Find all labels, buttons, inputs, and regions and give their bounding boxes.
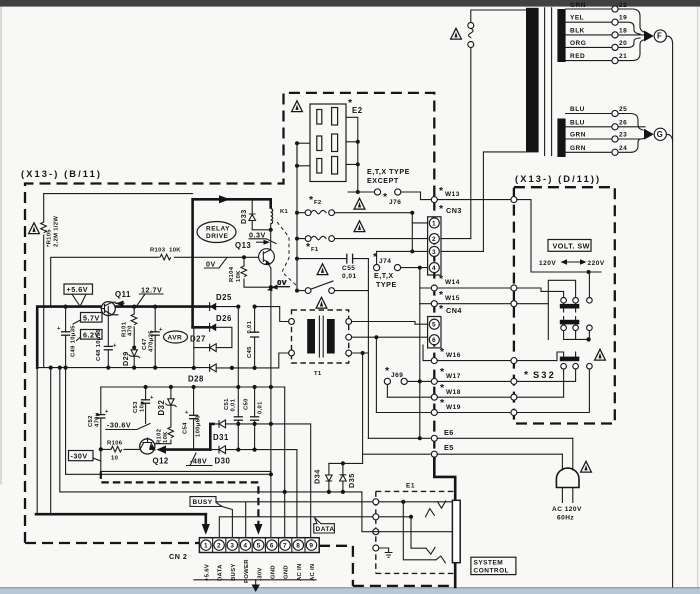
jack contacts upper [426,501,446,517]
svg-text:60Hz: 60Hz [557,515,574,522]
svg-text:100μ63: 100μ63 [196,415,202,437]
svg-text:+: + [105,409,109,415]
wire W15 into selector [517,303,548,305]
SYSTEM CONTROL label box [471,557,516,574]
node F [654,30,666,42]
solid thick boundary below E5 to bottom [434,455,455,587]
diode D30 [210,449,297,451]
svg-text:0,01: 0,01 [258,401,264,414]
AC plug body [556,468,579,487]
svg-text:470: 470 [128,325,134,336]
svg-text:26: 26 [619,119,627,126]
terminal circles lower [612,110,618,116]
svg-text:C54: C54 [183,422,189,434]
main vertical feed from E2 [295,211,299,215]
svg-text:W19: W19 [446,404,461,411]
switch S32 unit1 [560,304,580,309]
label -30.6V [106,424,150,430]
svg-text:23: 23 [619,132,627,139]
svg-text:EXCEPT: EXCEPT [367,176,399,185]
svg-text:12.7V: 12.7V [141,286,162,295]
DATA tag [314,518,335,533]
warning triangle at R105 [29,223,40,234]
sub box R103 line [51,257,258,306]
wire AC line from connector to primary [471,10,526,239]
warning triangle near C55 [317,264,328,275]
svg-text:SYSTEM: SYSTEM [474,560,504,567]
wire data line to E1 [219,517,411,537]
svg-text:C45: C45 [247,346,253,358]
GND rail from C49 column [66,368,271,475]
nodes D34/D35 bottom on gnd line [327,490,331,494]
plug prongs [562,488,572,503]
svg-text:F1: F1 [311,247,319,253]
svg-text:7: 7 [283,543,287,550]
capacitor C48 [107,307,109,368]
svg-text:E6: E6 [444,428,454,437]
bottom scan bar [0,587,700,594]
transformer secondary bar upper [557,9,565,62]
wire CN4 pin6 to W16 [423,345,431,361]
capacitor C54 [193,387,195,450]
feeder to ground line [60,368,362,492]
svg-text:F2: F2 [314,200,322,206]
wire W16 into unit3 [517,360,557,362]
svg-text:W18: W18 [446,389,461,396]
warning triangle above T1 [316,297,327,308]
wire busy tag to pin3 [222,507,232,538]
svg-text:+: + [113,343,117,349]
svg-text:ORG: ORG [570,40,586,47]
jumper J69 [387,381,431,397]
svg-text:Q11: Q11 [115,290,131,299]
wire pin3 row [377,250,428,252]
svg-text:5: 5 [432,322,436,329]
dashed boundary (X13-)(B/11) with E2 extension [25,93,434,543]
wire switch/C55 net down to E6 [367,291,369,439]
capacitor C49 [65,307,67,368]
svg-text:D29: D29 [121,351,130,366]
svg-text:9: 9 [309,543,313,550]
svg-text:24: 24 [619,145,627,152]
node E5 [363,453,430,455]
dashed boundary right of CN2 around E1 [319,546,456,586]
fuse F1 [297,236,428,239]
top scan border bar [0,0,700,7]
transistor Q12 [140,439,155,454]
RELAY DRIVE oval [197,222,236,243]
-30V dashed feeder to pin5 [101,471,259,524]
svg-text:DATA: DATA [218,564,224,581]
svg-text:E,T,X: E,T,X [374,271,394,280]
node W16 [437,360,510,362]
resistor R103 [160,254,171,260]
svg-text:BUSY: BUSY [231,563,237,581]
switch S32 unit3 [560,357,580,362]
D30 bus thick segment with emitter arrow [165,448,210,451]
svg-text:CN3: CN3 [446,206,462,215]
E1 edge terminals [373,499,379,505]
svg-text:W14: W14 [445,279,460,286]
svg-text:6: 6 [432,337,436,344]
svg-text:G: G [657,130,664,139]
transistor Q13 [259,249,275,265]
wire E5 riser [362,353,364,463]
wires unit2 contacts to lower rail [564,331,590,340]
converge triangle G [644,129,654,140]
svg-text:W17: W17 [446,373,461,380]
relay drive thick feed [193,199,271,327]
svg-text:D26: D26 [216,314,232,323]
label -48V [187,453,213,466]
svg-text:BLU: BLU [570,106,585,113]
nodes on top edge [144,385,148,389]
svg-text:D33: D33 [239,209,248,224]
wire E6 down to plug [572,438,574,470]
E1 dashed box [376,491,454,573]
svg-text:J69: J69 [391,372,403,379]
right scan edge line [697,7,698,588]
diode D27 row [194,327,232,368]
warning triangle in selector [595,349,606,360]
connector CN2 [199,538,319,553]
jack body [452,500,460,562]
+5.6V feeder to pin1 [37,368,51,515]
svg-text:0V: 0V [206,260,216,269]
wire T1 bottom-right [352,352,369,354]
svg-text:19: 19 [619,15,627,22]
svg-text:C55: C55 [342,265,355,272]
svg-text:0V: 0V [278,278,288,287]
E2 pins left column [317,110,322,125]
svg-text:C48 10μ35: C48 10μ35 [96,329,102,361]
diode D34 [328,463,330,492]
jumper J74 [377,251,428,267]
svg-text:4: 4 [432,265,436,272]
wire E2 right bus [346,117,358,192]
svg-text:AVR: AVR [168,335,183,342]
selector inner rail 2 [548,280,575,339]
node W15 [420,303,510,305]
svg-text:3: 3 [230,543,234,550]
wire CN3 pin2 to AC connector line [441,238,471,240]
left scan edge shading [0,7,2,485]
svg-text:D28: D28 [188,375,204,384]
capacitor C50 [254,387,256,450]
svg-text:+5.6V: +5.6V [205,564,211,581]
svg-text:4: 4 [243,543,247,550]
bracket under CN2 [194,579,316,581]
svg-text:GRN: GRN [570,2,586,9]
wire D30 line to pin8 [296,450,298,537]
svg-text:D31: D31 [213,433,229,442]
svg-text:J74: J74 [379,258,391,265]
wire E2 left bus [297,143,310,166]
svg-text:-30.6V: -30.6V [107,421,131,430]
transformer secondary bar lower [557,119,565,158]
svg-text:R106: R106 [107,441,123,447]
svg-text:BLK: BLK [570,27,585,34]
svg-text:10K: 10K [236,270,242,282]
svg-text:AC IN: AC IN [297,563,303,581]
secondary lead wires upper group [566,9,612,61]
svg-text:5: 5 [257,543,261,550]
wire W13 into selector [517,200,601,272]
svg-text:E,T,X TYPE: E,T,X TYPE [367,167,410,176]
svg-text:GRN: GRN [570,132,586,139]
svg-text:J76: J76 [389,199,401,206]
svg-text:2: 2 [217,543,221,550]
jumper J76 [348,192,421,200]
BUSY tag [190,497,222,507]
capacitor C51 [237,387,239,450]
svg-text:+: + [57,326,61,332]
svg-text:C53: C53 [133,401,139,413]
svg-text:10μ: 10μ [140,401,146,412]
svg-text:CONTROL: CONTROL [474,567,510,574]
svg-text:5.7V: 5.7V [83,313,100,322]
fuse F2 [297,210,412,213]
svg-text:GND: GND [284,565,290,579]
node W13 [421,199,511,201]
svg-text:C52: C52 [88,415,94,427]
box left edge with resistor R105 [43,194,45,368]
svg-text:W13: W13 [445,191,460,198]
svg-text:2.2M 1/2W: 2.2M 1/2W [54,216,60,247]
svg-text:6: 6 [270,543,274,550]
svg-text:D32: D32 [157,400,166,416]
wire W18 to unit3 left contact [517,369,564,397]
svg-text:-30V: -30V [71,452,88,461]
block bottom edge [101,470,271,472]
dashed box (X13-)(D/11) [514,187,615,423]
svg-text:R102: R102 [157,428,163,444]
svg-text:18: 18 [619,27,627,34]
warning triangle at plug [581,461,592,472]
svg-text:R104: R104 [229,266,235,282]
node W19 [376,412,510,414]
switch S32 unit2 [560,320,580,325]
svg-text:10: 10 [111,456,119,462]
nodes on bus [64,305,68,309]
connector E2 body [310,104,346,182]
svg-text:Q13: Q13 [235,241,251,250]
svg-text:BLU: BLU [570,119,585,126]
svg-text:CN4: CN4 [446,306,462,315]
svg-text:8: 8 [296,543,300,550]
capacitor C55 [297,259,368,291]
bracket wires converging to G [618,114,645,153]
svg-text:D30: D30 [215,457,231,466]
svg-text:S32: S32 [533,370,556,380]
svg-text:120V: 120V [539,260,556,267]
node W18 [387,396,510,398]
label 5.7V [81,313,103,323]
wire primary bottom to CN3 pin3 [483,152,526,252]
node W17 [418,379,422,383]
wire F2 to CN3 pin1 [412,213,427,223]
label 6.2V [81,330,103,340]
wire D34/D35 top to E5 riser [329,462,363,464]
svg-text:Q12: Q12 [153,457,169,466]
bracket wires converging to F [618,9,645,61]
svg-text:RELAY: RELAY [206,226,230,233]
warning triangle below J76 node [354,198,365,209]
wire from F down right edge [666,36,672,587]
svg-text:C51: C51 [224,398,230,410]
svg-text:0,01: 0,01 [231,398,237,411]
T1 terminals [289,319,295,325]
svg-text:D34: D34 [313,469,322,484]
transformer core lines [545,8,552,156]
wire unit1 right contact to rail [588,272,590,298]
warning triangle near AC connector [451,28,462,39]
svg-text:F: F [657,32,662,41]
svg-text:22: 22 [619,2,627,9]
node G [654,128,666,140]
diode D35 [342,463,344,492]
svg-text:C49 10μ35: C49 10μ35 [71,325,77,357]
circles on D/11 left edge [511,197,517,203]
dashed relay actuation link [277,222,297,286]
svg-text:0,01: 0,01 [342,273,357,280]
resistor R101 [133,307,135,314]
block top edge [101,386,285,388]
svg-text:K1: K1 [280,209,289,215]
svg-text:GRN: GRN [570,145,586,152]
capacitor C47 [154,307,156,368]
svg-text:VOLT. SW: VOLT. SW [553,241,590,250]
wire W19 to unit3 right contact [517,369,590,413]
svg-text:+5.6V: +5.6V [67,285,88,294]
dashed bottom edge of B/11 to CN2 [25,542,200,544]
resistor R102 [168,427,174,438]
jack interior verticals [403,502,436,560]
node W14 [420,287,510,289]
T1 core lines [319,316,323,357]
svg-text:BUSY: BUSY [193,499,213,506]
svg-text:DRIVE: DRIVE [206,233,229,240]
capacitor C45 [254,307,256,368]
inline connector circles on AC line [468,23,474,29]
svg-text:CN 2: CN 2 [169,552,187,561]
dashed connector column W13..E5 [433,200,435,457]
svg-text:D27: D27 [190,335,206,344]
capacitor C53 [145,387,147,424]
node E6 [368,437,430,439]
wire power line to E1 [216,502,452,537]
svg-text:20: 20 [619,40,627,47]
jack contacts lower [426,547,445,562]
T1 secondary bar [327,319,335,354]
T1 dashed box [292,310,349,363]
main +rail bus [37,307,209,368]
wire Q13 emitter down [268,264,271,387]
warning triangle at E2 [292,101,303,112]
wire pin4/J74 riser down to E6 [419,268,421,439]
svg-text:YEL: YEL [570,15,584,22]
converge triangle F [644,31,654,42]
zener D29 [129,350,140,358]
svg-text:(X13-) (B/11): (X13-) (B/11) [21,169,102,179]
AVR oval [164,331,188,343]
svg-text:TYPE: TYPE [376,280,397,289]
wire W17 to unit3 mid contact [517,369,576,381]
label -30V [69,451,94,461]
svg-text:W16: W16 [446,352,461,359]
svg-text:D35: D35 [347,473,356,488]
wire T1 mid-right to CN4 pin6 [352,337,428,340]
svg-text:R103 10K: R103 10K [150,248,181,254]
svg-text:10K: 10K [163,431,169,443]
svg-text:C47: C47 [142,338,148,350]
svg-text:+: + [185,410,189,416]
svg-text:220V: 220V [588,260,605,267]
wire CN3 pin3 to primary [441,250,484,252]
diode D28 row / lower bus [37,353,288,368]
VOLT. SW label box [548,240,591,252]
wire Q13 collector up [270,230,272,250]
wire Q13 emitter column to pin6 [270,387,272,539]
secondary lead wires lower group [566,114,612,153]
svg-text:25: 25 [619,106,627,113]
wire T1 top-right to CN4 pin5 [352,322,428,325]
diode D26 row [193,326,210,329]
svg-text:+: + [159,327,163,333]
label +5.6V [64,284,93,294]
svg-text:470μ: 470μ [95,412,101,427]
zener D32 [170,387,172,399]
T1 primary bar [307,319,315,354]
node E2 left [295,141,299,145]
resistor R104 [242,255,246,259]
block left edge with capacitor C52 [100,387,102,471]
wire from G to right edge line [666,134,672,142]
svg-text:+: + [150,395,154,401]
box top edge [44,193,193,195]
wire W19 riser from T1 center tap [375,337,377,412]
node E2 right [356,140,360,144]
svg-text:E2: E2 [352,106,363,115]
ground symbol [385,553,393,558]
svg-text:E5: E5 [444,443,454,452]
svg-text:0.3V: 0.3V [249,230,266,239]
svg-text:1: 1 [204,543,208,550]
feeder from bus1 down [237,307,239,387]
svg-text:GND: GND [271,565,277,579]
svg-text:(X13-) (D/11)): (X13-) (D/11)) [515,174,601,184]
transformer primary winding bar [526,8,539,153]
wire E2 left column down to switch area [296,143,298,290]
svg-text:0,01: 0,01 [247,320,253,333]
diode D33 [251,199,253,215]
wire top edge corner to pin7 [284,387,286,537]
svg-text:470μ25: 470μ25 [149,330,155,352]
nodes on lower bus [64,366,68,370]
svg-text:-48V: -48V [190,457,207,466]
svg-text:21: 21 [619,53,627,60]
diode D31 line [210,424,213,450]
jack wiring [401,500,405,504]
node on T1 line [361,351,365,355]
svg-text:DATA: DATA [316,526,335,533]
svg-text:AC 120V: AC 120V [552,506,582,513]
svg-text:*R105: *R105 [47,229,53,247]
wire vertical to pin3 row [411,223,413,252]
svg-text:W15: W15 [445,295,460,302]
resistor R106 [101,448,111,450]
svg-text:C50: C50 [244,398,250,410]
